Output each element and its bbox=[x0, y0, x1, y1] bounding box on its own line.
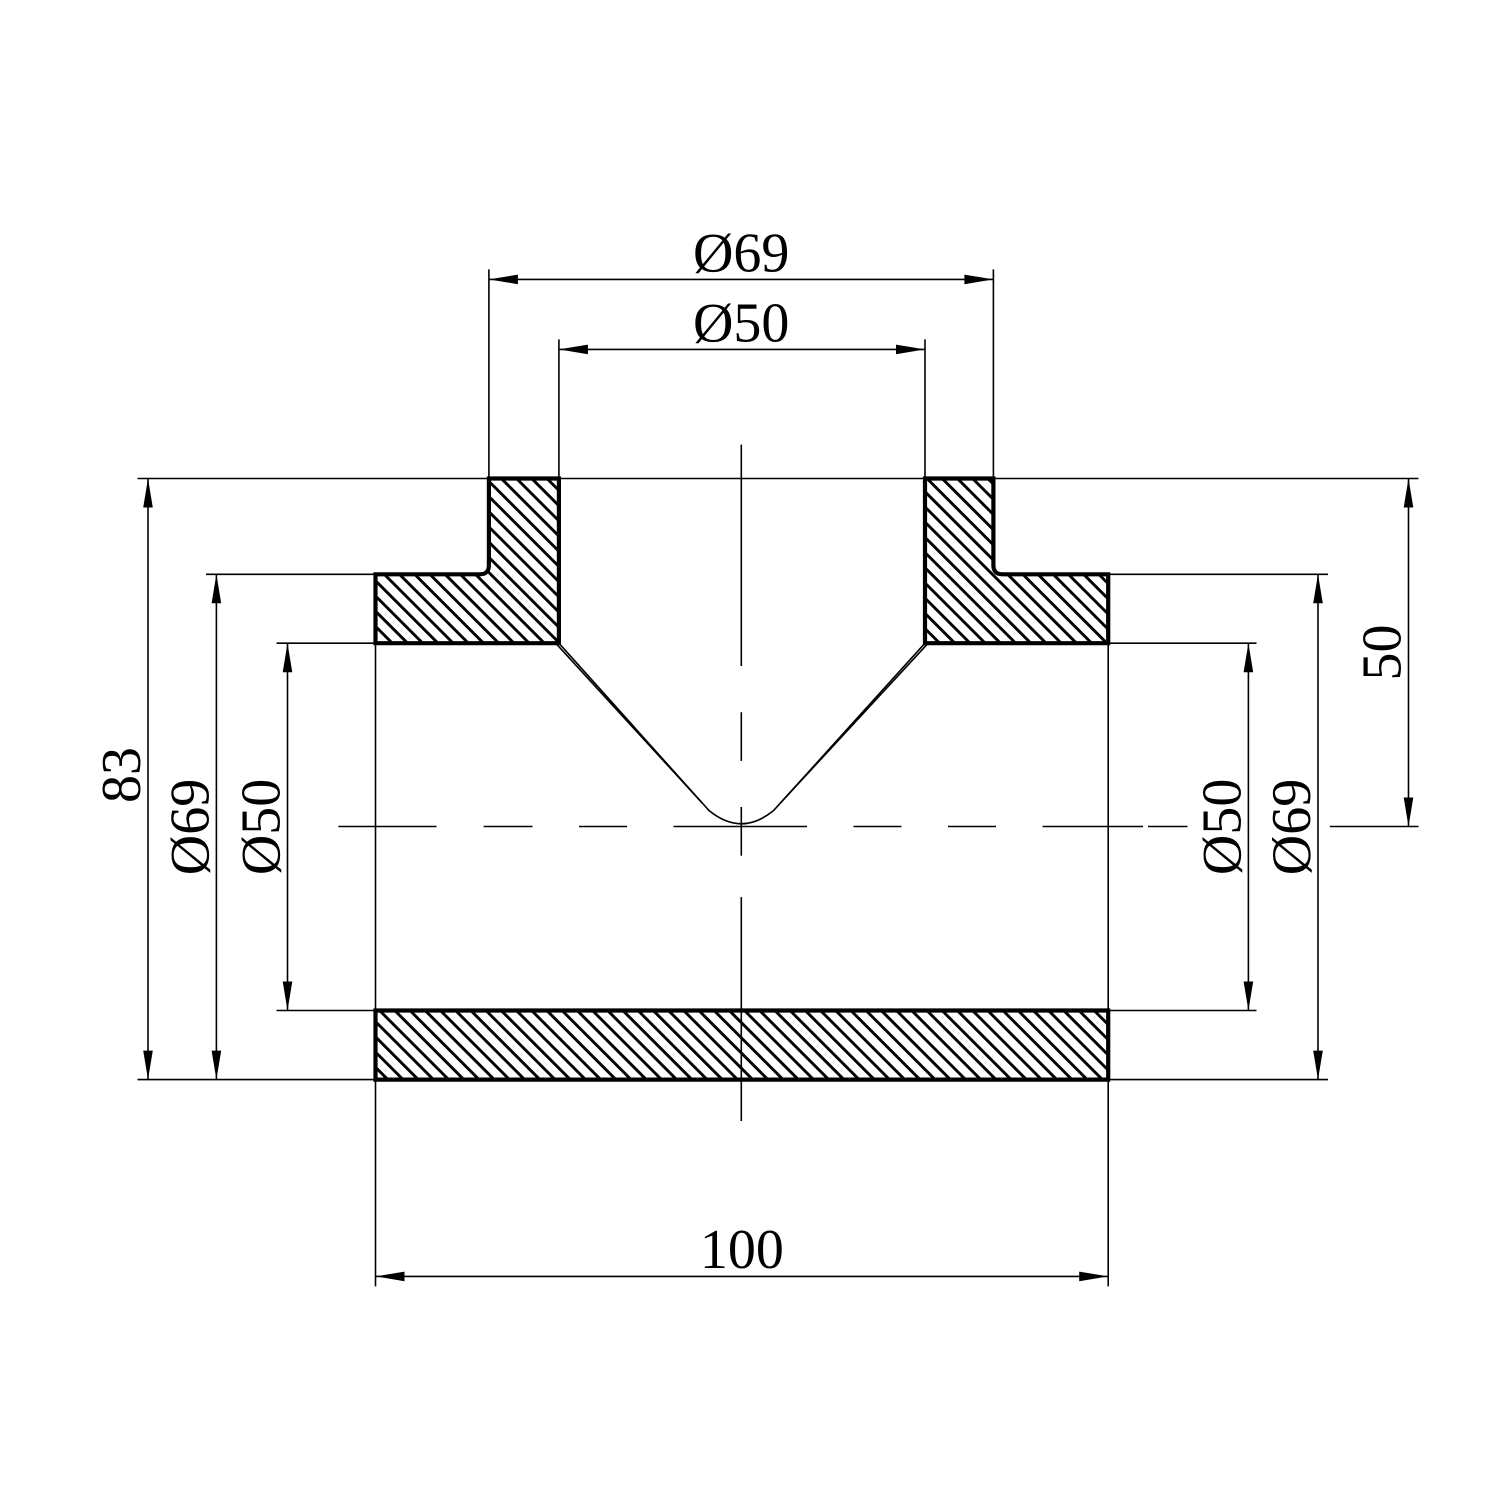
svg-text:Ø69: Ø69 bbox=[159, 779, 221, 875]
svg-text:Ø69: Ø69 bbox=[1261, 779, 1323, 875]
svg-text:Ø69: Ø69 bbox=[693, 222, 789, 284]
svg-text:Ø50: Ø50 bbox=[231, 779, 293, 875]
svg-text:83: 83 bbox=[91, 747, 153, 803]
svg-text:50: 50 bbox=[1352, 625, 1414, 681]
svg-text:Ø50: Ø50 bbox=[1191, 779, 1253, 875]
svg-text:Ø50: Ø50 bbox=[693, 292, 789, 354]
svg-text:100: 100 bbox=[700, 1219, 784, 1281]
